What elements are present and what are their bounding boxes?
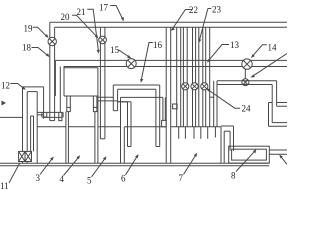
floor line bottom (0, 165, 269, 167)
svg-text:18: 18 (22, 43, 32, 53)
vessel 12 outer left wall / pipe to 11 (22, 87, 24, 151)
manifold over tank3 bottom line (44, 116, 63, 118)
pipe 13 left descent outer (54, 60, 56, 96)
svg-text:11: 11 (0, 181, 9, 191)
pipe 18 right line (54, 27, 56, 120)
tank6 inner vessel right pair (156, 85, 160, 147)
housing over tank4 top (64, 67, 98, 69)
pipe 13 bottom line (64, 66, 287, 68)
snake riser outer (112, 85, 114, 111)
tank 5 left wall (97, 68, 99, 164)
pipe 13 top line (55, 59, 287, 61)
tank 4 right wall (94, 112, 96, 164)
tank 3 left wall (36, 92, 38, 164)
pipe corner outer (276, 81, 278, 107)
svg-text:7: 7 (179, 173, 184, 183)
pipe 13 left descent mid (59, 67, 61, 113)
housing level line (64, 95, 98, 97)
tank7 right tubes (214, 81, 217, 127)
svg-text:12: 12 (1, 80, 10, 90)
tank 7 top edge (171, 126, 221, 128)
valve 2 connector from pipe13 (244, 69, 246, 78)
svg-text:8: 8 (231, 171, 236, 181)
valve C (201, 83, 208, 90)
tank 3 right wall (65, 112, 67, 164)
valve A (182, 83, 189, 90)
leader to valve 2 from edge (252, 54, 287, 77)
box 8 drop inner (229, 131, 231, 151)
valve B (191, 83, 198, 90)
transfer line tank5 to tank6 cap (121, 96, 163, 98)
valve 20 (99, 36, 107, 44)
outlet pipe bottom (269, 153, 287, 155)
receiver box outer (269, 103, 288, 127)
tank6 cap feed pair (163, 97, 165, 120)
valve 15 (126, 59, 136, 69)
snake riser inner (117, 89, 119, 110)
svg-text:6: 6 (121, 174, 126, 184)
tank 5 top edge (98, 126, 121, 128)
inlet line (0, 116, 23, 118)
pipe 18 left line (49, 22, 51, 120)
box 8 drop outer (233, 126, 235, 151)
tank 6 left wall (123, 127, 125, 163)
bridge at tank7 tubes (210, 96, 214, 98)
svg-text:5: 5 (87, 176, 92, 186)
svg-text:17: 17 (99, 2, 109, 12)
tank6 inner vessel left pair (128, 102, 132, 147)
valve 19 (48, 37, 56, 45)
settling box 8 outer (229, 146, 270, 163)
svg-text:21: 21 (77, 7, 86, 17)
manifold over tank3 top line (37, 111, 63, 113)
tank7 inner tubes (179, 127, 216, 139)
manifold drop C (59, 112, 62, 120)
siphon cap tank3-4 (67, 107, 71, 111)
tank7 right companion wall (223, 131, 225, 163)
dip pipe P4 (193, 27, 196, 127)
siphon cap tank6 right (162, 120, 167, 126)
vessel 12 outer top (23, 86, 44, 88)
small clip on tank7 left tube (173, 104, 178, 109)
pipe 18 u-bottom (50, 120, 55, 122)
box 8 inlet jog top (221, 125, 234, 127)
outlet pipe top (269, 149, 287, 151)
tank 6 top edge (124, 126, 166, 128)
pump 11 box (19, 151, 32, 161)
pipe from valve2 bottom line (217, 84, 272, 86)
svg-text:16: 16 (153, 40, 163, 50)
settling box 8 inner (232, 149, 267, 160)
jog manifold bottom line (118, 88, 156, 90)
pipe corner inner (271, 85, 273, 123)
svg-text:3: 3 (36, 173, 41, 183)
receiver box inner (272, 106, 287, 122)
housing left wall (63, 67, 65, 97)
leader 19 (33, 27, 48, 37)
pipe 21 right line (104, 27, 106, 139)
pipe 17 top line (50, 21, 287, 23)
jog manifold top line (113, 84, 159, 86)
dip pipe P2 (177, 27, 181, 127)
dip pipe P3 (183, 27, 187, 127)
vessel 12 inner top (27, 91, 37, 93)
svg-text:20: 20 (61, 12, 71, 22)
svg-text:13: 13 (230, 40, 240, 50)
vessel 12 wall cavity bottom (37, 114, 43, 116)
dip pipe P6 (206, 27, 210, 127)
tank 4 left wall (67, 112, 69, 164)
dip pipe pair P1 right / tank7 left wall (170, 27, 172, 163)
tank 3 top edge (37, 126, 66, 128)
vessel 12 outer right wall (43, 87, 45, 119)
floor line top (0, 162, 269, 164)
pipe 21 left line (99, 27, 101, 139)
pipe 21 u-bottom (100, 138, 105, 140)
svg-text:14: 14 (268, 43, 278, 53)
drain pipe to pump 11 (31, 116, 34, 151)
leader to outlet pipe from edge (280, 155, 287, 164)
svg-text:24: 24 (242, 104, 252, 114)
pipe from valve2 top line (217, 80, 277, 82)
tank 4 top edge (68, 126, 95, 128)
inlet arrow (2, 101, 7, 106)
snake riser u-bottom (113, 110, 117, 112)
svg-text:15: 15 (110, 45, 120, 55)
pump 11 outlet stubs (23, 162, 28, 164)
valve 2 (242, 79, 249, 86)
tank 5 right wall (120, 97, 122, 163)
transfer lines from tank5 left (98, 97, 131, 102)
dip pipe pair P1 left / tank6 right wall (165, 27, 167, 163)
valve 14 (242, 59, 252, 69)
svg-text:23: 23 (212, 4, 222, 14)
manifold right end (62, 112, 64, 117)
manifold drop A (42, 112, 47, 117)
siphon cap tank4-5 (93, 107, 97, 111)
pipe 17 bottom line (55, 26, 287, 28)
vessel 12 inner left wall (26, 92, 28, 152)
transfer line lower (118, 101, 128, 103)
box 8 inlet jog bottom (224, 130, 230, 132)
svg-text:19: 19 (24, 24, 34, 34)
tank4 right wall upper pair (93, 96, 97, 107)
tank4 left wall upper pair (67, 96, 71, 107)
dip pipe P5 (199, 27, 203, 127)
tank 7 right wall (220, 127, 222, 163)
